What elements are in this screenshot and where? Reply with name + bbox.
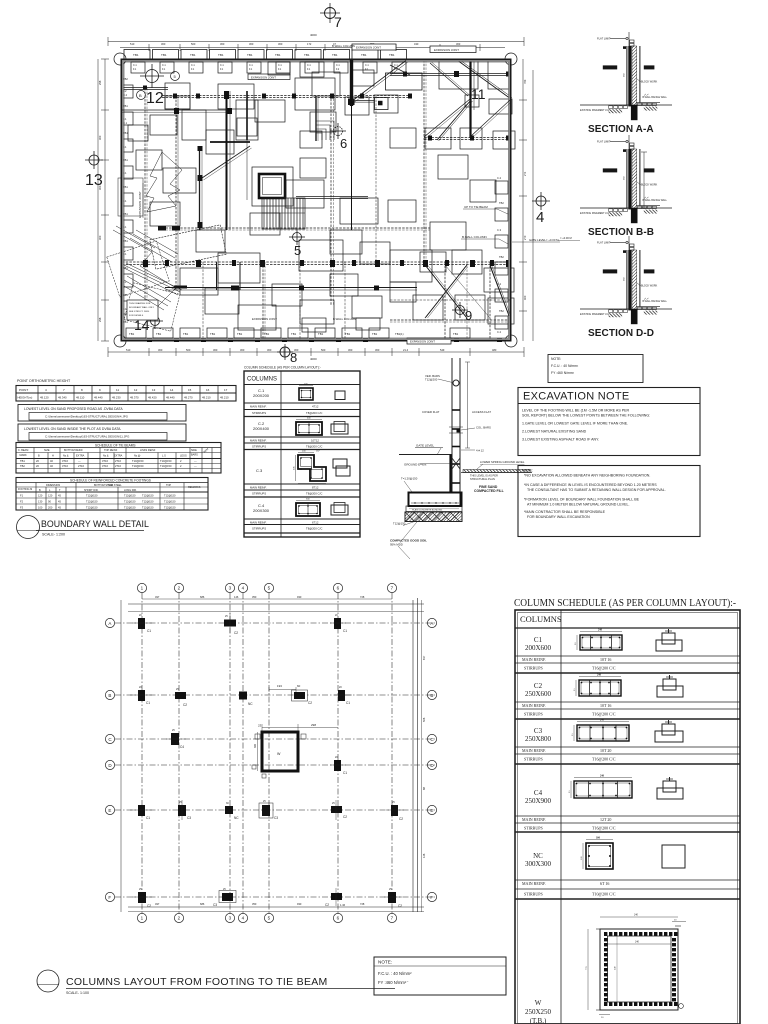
svg-text:F: F <box>108 895 111 900</box>
svg-text:49.340: 49.340 <box>58 395 67 399</box>
svg-text:T12@150: T12@150 <box>164 500 176 504</box>
svg-text:40: 40 <box>50 459 53 463</box>
center-left footing rect 5 <box>218 253 260 283</box>
svg-text:11: 11 <box>471 86 486 102</box>
svg-text:EXPANSION JOINT: EXPANSION JOINT <box>251 76 276 80</box>
svg-text:240: 240 <box>634 914 639 917</box>
svg-text:480: 480 <box>492 348 497 352</box>
svg-text:B.WALL COLUMN: B.WALL COLUMN <box>332 44 355 48</box>
svg-text:SEE STRUCT. DWG: SEE STRUCT. DWG <box>129 311 149 313</box>
W shaft drawing outer <box>600 929 678 1010</box>
svg-text:F.1: F.1 <box>123 145 127 149</box>
svg-text:C.1: C.1 <box>123 121 128 125</box>
svg-text:*FORMATION LEVEL OF BOUNDARY W: *FORMATION LEVEL OF BOUNDARY WALL FOUNDA… <box>524 498 640 502</box>
b.wall column label right <box>461 235 510 245</box>
svg-text:20: 20 <box>574 642 577 645</box>
svg-text:C1: C1 <box>343 629 347 633</box>
mid schedule header <box>244 377 360 385</box>
points table frame <box>16 386 236 402</box>
svg-text:T12@150: T12@150 <box>124 494 136 498</box>
footing rect n7 <box>250 213 280 235</box>
right dimension lines <box>519 59 533 341</box>
svg-text:49.110: 49.110 <box>76 395 85 399</box>
svg-text:THE CONSULTANT HAS TO SUBMIT A: THE CONSULTANT HAS TO SUBMIT A RETAINING… <box>527 488 666 492</box>
svg-text:TB1: TB1 <box>291 332 297 336</box>
svg-text:THIS LEVEL IS AS PER: THIS LEVEL IS AS PER <box>470 474 498 478</box>
beam line E center horizontal <box>296 197 368 199</box>
svg-text:MAIN REINF.: MAIN REINF. <box>522 817 546 822</box>
svg-text:EXPANSION JOINT: EXPANSION JOINT <box>252 317 277 321</box>
svg-text:100: 100 <box>38 506 43 510</box>
bottom dimension line <box>108 347 524 357</box>
center footing rect A <box>286 180 324 208</box>
grid bubbles top <box>137 583 396 592</box>
grid marker 12 sub-circle <box>137 91 146 100</box>
wall below-gate thick edge <box>449 455 451 494</box>
grid marker 7 crosshair <box>320 3 340 23</box>
svg-text:TB2: TB2 <box>499 309 504 313</box>
svg-text:TB1: TB1 <box>123 104 128 108</box>
blinding layer <box>406 506 462 512</box>
svg-text:49.230: 49.230 <box>112 395 121 399</box>
svg-text:TB1: TB1 <box>372 332 378 336</box>
NC section <box>580 837 613 870</box>
svg-text:EXTRA: EXTRA <box>76 455 85 458</box>
svg-text:COLUMN SCHEDULE (AS PER COLU: COLUMN SCHEDULE (AS PER COLUMN LAYOUT):- <box>514 598 736 609</box>
column B1 <box>130 686 152 705</box>
right bottom field rects row1 <box>390 222 482 282</box>
svg-text:SCALE- 1:100: SCALE- 1:100 <box>66 991 89 995</box>
gate level label right <box>512 238 560 242</box>
expansion joint thick column <box>350 60 353 230</box>
svg-text:500: 500 <box>186 348 191 352</box>
big rect right of joint <box>386 73 423 90</box>
svg-text:FY :460 N/mm² ': FY :460 N/mm² ' <box>378 980 408 985</box>
svg-text:T12@150: T12@150 <box>164 506 176 510</box>
column A1 <box>132 614 152 633</box>
top dimension labels <box>130 33 461 46</box>
footing body <box>409 493 462 507</box>
svg-text:172: 172 <box>307 42 312 46</box>
svg-text:728: 728 <box>360 902 365 906</box>
svg-text:2.LOWEST NATURAL EXISTING SAND: 2.LOWEST NATURAL EXISTING SAND <box>522 430 587 434</box>
diag pair br2 <box>426 266 468 318</box>
svg-text:F.1: F.1 <box>191 68 195 71</box>
svg-text:B: B <box>139 93 142 98</box>
C3 stirrups <box>524 757 616 762</box>
svg-text:6T 16: 6T 16 <box>600 881 609 886</box>
svg-text:L.S: L.S <box>162 455 166 458</box>
footing rect n16 <box>272 284 302 306</box>
footing rect n11 <box>300 158 326 178</box>
mid-left footing rect 3 <box>118 178 143 216</box>
left thick vertical x316 <box>316 96 318 141</box>
svg-text:686: 686 <box>200 902 205 906</box>
svg-text:BOUNDARY WALL DETAIL: BOUNDARY WALL DETAIL <box>41 519 149 529</box>
points table row1 <box>19 388 228 392</box>
wall stem rungs <box>452 410 460 483</box>
W shaft <box>252 723 338 778</box>
footings table frame <box>16 478 208 511</box>
left column footing squares <box>122 85 133 314</box>
C3 name <box>525 727 552 743</box>
bottom boundary column nodes <box>147 338 502 342</box>
svg-text:A: A <box>108 621 111 626</box>
expansion joint boxed label top right <box>430 46 476 53</box>
svg-text:250X900: 250X900 <box>525 797 552 805</box>
svg-text:F.1: F.1 <box>162 68 166 71</box>
svg-text:= +0.00 M: = +0.00 M <box>560 236 572 240</box>
lowest level box 2 path <box>29 433 167 441</box>
right ground hatched strip <box>461 470 532 473</box>
svg-text:C4: C4 <box>180 745 184 749</box>
svg-text:F.1: F.1 <box>220 68 224 71</box>
mid schedule outer frame <box>244 371 360 537</box>
svg-text:BOTTOM REINF: BOTTOM REINF <box>64 449 83 452</box>
svg-text:298: 298 <box>98 80 102 85</box>
svg-text:BARS: BARS <box>191 454 198 457</box>
svg-text:300X300: 300X300 <box>525 860 552 868</box>
svg-text:TB1: TB1 <box>345 332 351 336</box>
diagonal pair left-center <box>202 146 252 180</box>
svg-text:TB1: TB1 <box>123 185 128 189</box>
svg-text:60: 60 <box>297 684 301 688</box>
right field diagonal brace 2 <box>437 100 473 141</box>
svg-text:*MAIN CONTRACTOR SHALL BE RESP: *MAIN CONTRACTOR SHALL BE RESPONSIBLE <box>524 510 606 514</box>
svg-text:LOWEST LEVEL ON SAND INSIDE TH: LOWEST LEVEL ON SAND INSIDE THE PLOT AS … <box>24 427 121 431</box>
column F7 C2 <box>384 888 402 908</box>
svg-text:F.1: F.1 <box>123 171 127 175</box>
tie beam data row 2 <box>20 464 197 468</box>
C3 stirrup icon <box>333 459 350 476</box>
svg-text:25: 25 <box>571 733 574 736</box>
svg-text:T12@150: T12@150 <box>124 506 136 510</box>
svg-text:SECTION A-A: SECTION A-A <box>588 124 654 135</box>
svg-text:F2: F2 <box>20 500 24 504</box>
NC stirrup icon plain square <box>662 845 685 868</box>
svg-text:TB1: TB1 <box>20 459 25 463</box>
C2 stirrup icon <box>657 675 683 697</box>
svg-text:13: 13 <box>152 388 156 392</box>
column E2 C3 <box>178 800 191 820</box>
svg-text:C2: C2 <box>534 682 543 690</box>
svg-text:No.&: No.& <box>63 455 69 458</box>
main long beam bottom <box>122 262 511 265</box>
wall stem double lines <box>452 358 460 493</box>
C3 section <box>571 719 629 742</box>
svg-text:C.1: C.1 <box>307 64 311 67</box>
grid marker 4 crosshair <box>532 192 550 210</box>
svg-text:193: 193 <box>277 684 282 688</box>
svg-text:F.1: F.1 <box>123 252 127 256</box>
svg-text:COVER FLAT: COVER FLAT <box>422 410 440 414</box>
svg-text:49.270: 49.270 <box>184 395 193 399</box>
column F3 C3 <box>213 888 236 907</box>
svg-text:250X250: 250X250 <box>525 1008 552 1016</box>
svg-text:1: 1 <box>141 916 144 921</box>
center small column box <box>354 98 388 110</box>
footing rect n6 <box>268 62 290 75</box>
svg-text:MARK: MARK <box>20 454 28 457</box>
svg-text:NC: NC <box>533 852 543 860</box>
center vertical thick beam <box>227 91 231 230</box>
horizontal beam y300 right <box>390 299 511 301</box>
svg-text:298: 298 <box>311 723 316 727</box>
svg-text:497: 497 <box>155 595 160 599</box>
svg-text:C2: C2 <box>325 903 329 907</box>
center-left footing rect 6 <box>180 268 218 295</box>
svg-text:BOUNDARY WALL ONLY: BOUNDARY WALL ONLY <box>129 306 155 309</box>
svg-text:49.210: 49.210 <box>220 395 229 399</box>
extra beam nodes y262 <box>165 260 494 266</box>
svg-text:LEGS: LEGS <box>180 455 187 458</box>
svg-text:1.46: 1.46 <box>340 903 346 907</box>
column F1 C2 <box>132 888 152 908</box>
footing rect n10 <box>388 200 416 222</box>
svg-text:10T 16: 10T 16 <box>600 703 611 708</box>
center footing rect C <box>340 198 378 224</box>
svg-text:TB1: TB1 <box>161 53 167 57</box>
footing right black bar <box>460 493 463 507</box>
svg-text:497: 497 <box>155 902 160 906</box>
column E7 C2 <box>386 801 404 821</box>
bottom dimension row <box>155 902 365 906</box>
svg-text:200X600: 200X600 <box>525 644 552 652</box>
svg-text:7: 7 <box>391 586 394 591</box>
right bottom verticals <box>445 262 490 340</box>
svg-text:300: 300 <box>375 348 380 352</box>
left vertical beam 1 <box>145 88 147 300</box>
grid marker 8 crosshair <box>277 344 293 360</box>
right field diagonal brace 1 <box>457 59 512 99</box>
svg-text:F: F <box>430 895 433 900</box>
grid bubbles right <box>427 618 436 901</box>
tilted plot rect 3 <box>150 225 227 269</box>
beam line C right horizontal <box>390 71 511 77</box>
t12@150 bottom label <box>393 521 416 526</box>
svg-text:3T16: 3T16 <box>62 459 68 463</box>
svg-text:40: 40 <box>50 464 53 468</box>
svg-text:45: 45 <box>58 506 61 510</box>
svg-text:C.2: C.2 <box>497 330 502 334</box>
W shaft hatched ring left <box>604 938 608 1001</box>
bottom hatched base <box>405 512 462 522</box>
svg-text:3.LOWEST EXISTING ASPHALT ROAD: 3.LOWEST EXISTING ASPHALT ROAD IF ANY. <box>522 438 599 442</box>
svg-text:400: 400 <box>307 418 311 420</box>
footing rect n21 <box>420 252 446 272</box>
W shaft hatched ring right <box>672 938 676 1001</box>
svg-text:350: 350 <box>252 902 257 906</box>
svg-text:C2: C2 <box>234 631 238 635</box>
top dimension line <box>108 37 524 51</box>
footing rect top center 4 <box>236 100 258 140</box>
svg-text:TB1: TB1 <box>156 332 162 336</box>
svg-text:390: 390 <box>254 743 257 748</box>
footing rect n1 <box>255 100 285 122</box>
boundary wall detail marker circle <box>17 516 40 539</box>
mid-right footing rect e <box>470 180 496 202</box>
bottom note box <box>374 957 506 995</box>
svg-text:45: 45 <box>58 494 61 498</box>
this level note lines <box>470 474 498 482</box>
up to tie beam label <box>463 205 510 215</box>
mid-right footing rect d <box>438 155 468 179</box>
svg-text:LOWER SPRING GROUND LEVEL: LOWER SPRING GROUND LEVEL <box>480 460 525 464</box>
left mid diagonal boundary <box>113 226 176 306</box>
footing rect n20 <box>390 282 416 302</box>
svg-text:*IN CASE A DIFFERENCE IN LEVEL: *IN CASE A DIFFERENCE IN LEVEL IS ENCOUN… <box>524 483 657 487</box>
svg-text:TB1: TB1 <box>318 332 324 336</box>
svg-text:F.1: F.1 <box>278 68 282 71</box>
svg-text:49.440: 49.440 <box>166 395 175 399</box>
svg-text:8: 8 <box>81 388 83 392</box>
svg-text:C.3: C.3 <box>256 468 263 473</box>
svg-text:200: 200 <box>302 451 306 453</box>
main beam nodes <box>143 260 511 267</box>
C1 label <box>253 388 270 398</box>
svg-text:C: C <box>430 737 434 742</box>
svg-text:T12@150: T12@150 <box>142 500 154 504</box>
layout title circle <box>37 970 59 992</box>
row lines C1 <box>515 656 740 673</box>
section D-D drawing <box>580 236 672 324</box>
lowest level box 1 <box>18 405 186 422</box>
svg-text:F1: F1 <box>20 494 24 498</box>
svg-text:TB1: TB1 <box>123 131 128 135</box>
svg-text:TB1: TB1 <box>133 53 139 57</box>
svg-text:16: 16 <box>206 388 210 392</box>
center footing rect D <box>300 131 322 148</box>
svg-text:T8@200 C/C: T8@200 C/C <box>306 411 322 415</box>
NC stirrups <box>524 892 616 897</box>
beam D nodes <box>428 136 510 141</box>
C4 stirrups row <box>252 527 322 531</box>
C1 section drawing <box>299 384 313 401</box>
elevator shaft inner <box>263 178 282 195</box>
svg-text:49.210: 49.210 <box>202 395 211 399</box>
NC main reinf <box>522 881 609 886</box>
wall right dim line <box>465 362 470 448</box>
tie beam data row 1 <box>20 459 197 463</box>
svg-text:770: 770 <box>585 966 588 970</box>
svg-text:90: 90 <box>48 500 51 504</box>
svg-text:STIRRUPS: STIRRUPS <box>252 445 266 449</box>
svg-text:T8@200 C/C: T8@200 C/C <box>306 527 322 531</box>
footing rect n18 <box>302 318 326 332</box>
diag pair tr3 <box>430 62 470 96</box>
svg-text:STIRRUPS: STIRRUPS <box>524 666 543 671</box>
svg-text:300: 300 <box>161 42 166 46</box>
svg-text:930: 930 <box>297 595 302 599</box>
column B5 C2 with dims <box>269 684 312 705</box>
svg-text:F.1: F.1 <box>307 68 311 71</box>
column E1 C1 <box>130 805 152 820</box>
svg-text:3T16: 3T16 <box>102 459 108 463</box>
thick column line right vertical <box>471 60 475 138</box>
column A3 <box>224 613 238 635</box>
svg-text:MAIN REINF.: MAIN REINF. <box>522 657 546 662</box>
C4 section <box>568 775 632 799</box>
svg-text:F.1: F.1 <box>123 117 127 121</box>
svg-text:T16@200 C/C: T16@200 C/C <box>592 666 616 671</box>
svg-text:---: --- <box>78 460 81 463</box>
svg-text:F.C.U. : 40 N/mm²: F.C.U. : 40 N/mm² <box>551 364 579 368</box>
svg-text:2: 2 <box>178 586 181 591</box>
svg-text:MAIN REINF.: MAIN REINF. <box>250 485 267 489</box>
grid marker 9 crosshair <box>452 302 468 318</box>
svg-text:510: 510 <box>130 42 135 46</box>
tie beam table frame <box>16 443 221 474</box>
svg-text:STIRRUPS: STIRRUPS <box>252 411 266 415</box>
svg-text:LOWEST LEVEL ON SAND PROPOSED: LOWEST LEVEL ON SAND PROPOSED ROAD AS .D… <box>24 407 123 411</box>
diag pair br1 <box>426 265 468 317</box>
mid schedule row lines <box>244 403 360 533</box>
vertical beam x200 <box>198 146 203 230</box>
C4 section drawing <box>296 499 320 517</box>
footing rect n15 <box>205 288 239 314</box>
center bottom footing rect 8 <box>300 300 334 324</box>
svg-text:20: 20 <box>674 919 677 922</box>
svg-text:120: 120 <box>48 494 53 498</box>
svg-text:NOTE:: NOTE: <box>551 357 561 361</box>
boundary wall outline <box>122 60 511 341</box>
layout title underline <box>66 988 395 990</box>
svg-text:T=1.20@150: T=1.20@150 <box>401 477 418 481</box>
column B6 C1 <box>334 686 352 705</box>
svg-text:126: 126 <box>422 853 426 858</box>
excavation note box <box>518 388 700 456</box>
section B-B drawing <box>580 135 672 223</box>
svg-text:COL. BARS: COL. BARS <box>476 426 491 430</box>
footing rect n23 <box>206 130 234 154</box>
vertical beam x376 <box>375 96 377 262</box>
svg-text:C.1: C.1 <box>249 64 253 67</box>
grid marker 6 crosshair <box>330 123 346 139</box>
svg-text:(T.B.): (T.B.) <box>530 1017 547 1024</box>
grid bubbles left <box>105 618 114 901</box>
plan right boundary double line <box>413 598 422 912</box>
svg-text:30: 30 <box>226 802 229 805</box>
svg-text:F.1: F.1 <box>365 68 369 71</box>
center footing rect B <box>299 240 343 271</box>
svg-text:GROUND E=xxx: GROUND E=xxx <box>404 463 427 467</box>
svg-text:7: 7 <box>334 14 342 30</box>
svg-text:15: 15 <box>188 388 192 392</box>
C1 stirrup icon <box>656 629 682 651</box>
svg-text:300: 300 <box>158 348 163 352</box>
svg-text:C1: C1 <box>146 701 150 705</box>
svg-text:EXPANSION JOINT: EXPANSION JOINT <box>410 340 435 344</box>
svg-text:300: 300 <box>278 42 283 46</box>
footing rect n12 <box>136 150 162 170</box>
svg-text:UP TO TIE BEAM: UP TO TIE BEAM <box>464 205 488 209</box>
column B4 NC <box>239 692 253 707</box>
svg-text:T16@200 C/C: T16@200 C/C <box>592 826 616 831</box>
svg-text:F.1: F.1 <box>123 225 127 229</box>
beam y228 left ticks <box>158 226 180 231</box>
wall joint detail <box>449 427 463 433</box>
W shaft inner rect <box>608 936 672 1002</box>
svg-text:C1: C1 <box>146 816 150 820</box>
C4 label <box>253 503 270 513</box>
svg-text:200X300: 200X300 <box>253 508 270 513</box>
svg-text:C:\Users\username\Desktop\163-: C:\Users\username\Desktop\163-STRUCTURAL… <box>45 415 129 419</box>
beam x247 extension <box>246 140 248 200</box>
svg-text:D: D <box>108 763 112 768</box>
svg-text:335: 335 <box>294 466 296 470</box>
svg-text:300: 300 <box>213 348 218 352</box>
plan bottom boundary lines <box>128 907 424 912</box>
